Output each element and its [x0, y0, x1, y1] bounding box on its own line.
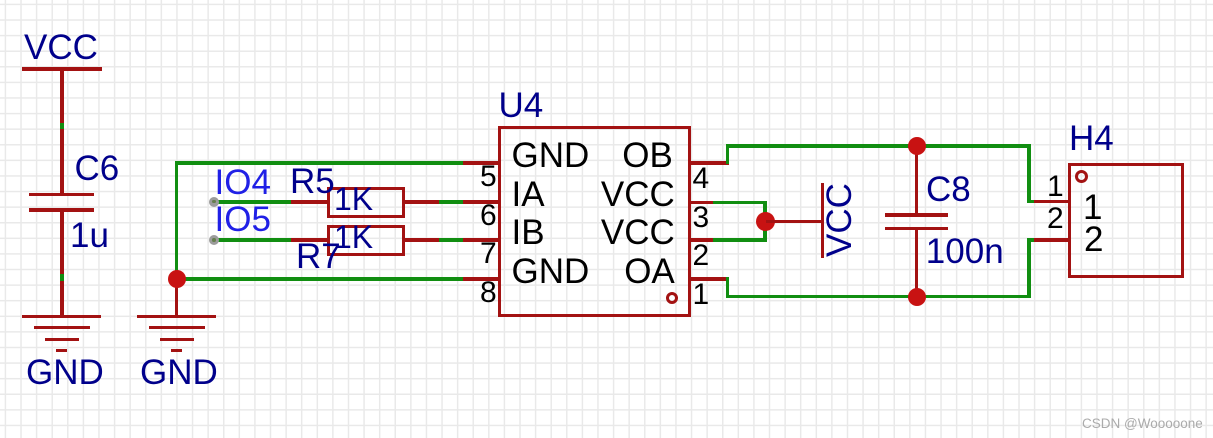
U4 right pin stubs: [690, 161, 729, 164]
op U4 pins left stubs: [463, 161, 499, 164]
H4 pin names (inside): [1083, 190, 1102, 225]
pin-1 marker circle U4: [666, 292, 678, 304]
junction (VCC node): [756, 212, 775, 231]
wire (VCC node vertical): [763, 201, 766, 242]
wire (H4 pin 1 drop): [1027, 144, 1030, 203]
power port VCC (top-left): [22, 67, 102, 71]
connector H4 stubs: [1034, 200, 1069, 203]
connector H4 body: [1068, 163, 1184, 278]
wire (C6 to GND): [60, 274, 64, 281]
wire (VCC to C6): [60, 123, 64, 130]
node IO5: [215, 202, 271, 237]
capacitor C6: [29, 193, 94, 197]
wire (left vertical GND net): [175, 161, 178, 279]
wire (R7 to pin 7): [439, 238, 465, 241]
chip U4 body: [498, 126, 691, 317]
U4 pin names: [512, 138, 590, 173]
wire (pin 4 jog up to top rail): [726, 144, 729, 164]
junction (C8 top): [908, 137, 926, 155]
wire (R5 to pin 6): [439, 200, 465, 203]
value 1K (R7): [334, 221, 373, 253]
H4 pin numbers (outside): [1047, 172, 1064, 202]
resistor R7: [291, 238, 328, 241]
watermark: [1082, 417, 1203, 431]
value 1K (R5): [334, 183, 373, 215]
value 1u: [70, 218, 109, 253]
wire (top rail to U4 pin 5): [175, 161, 464, 164]
label VCC net (rotated): [822, 186, 857, 257]
resistor R5: [291, 200, 328, 203]
junction (C8 bottom): [908, 288, 926, 306]
label C6 designator: [75, 151, 120, 186]
pin-1 marker circle H4: [1075, 170, 1088, 183]
wire (pin 1 jog down to bottom rail): [726, 277, 729, 298]
capacitor C8: [915, 146, 919, 216]
label VCC net: [24, 30, 98, 65]
label GND net (second): [140, 355, 218, 390]
ground GND (left): [22, 315, 101, 318]
wire (H4 pin 2 rise): [1027, 238, 1030, 298]
value 100n: [926, 234, 1004, 269]
U4 pin numbers right: [693, 164, 710, 194]
label H4 designator: [1069, 121, 1114, 156]
label U4 designator: [499, 88, 544, 123]
wire (pin 3 to VCC node): [713, 201, 767, 204]
wire (bottom rail to U4 pin 8): [175, 277, 464, 280]
label C8 designator: [926, 172, 971, 207]
wire (pin 2 to VCC node): [713, 238, 767, 241]
U4 pin numbers left: [480, 162, 497, 192]
label R7 designator: [296, 239, 341, 274]
node IO4: [215, 165, 271, 200]
junction (GND net): [168, 270, 186, 288]
label R5 designator: [290, 164, 335, 199]
power port VCC (right, rotated): [766, 220, 822, 224]
label GND net (left): [26, 355, 104, 390]
ground GND (second): [175, 279, 179, 317]
